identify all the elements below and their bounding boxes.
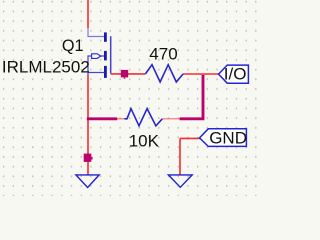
wire 10K resistor left lead: [117, 118, 125, 120]
junction square on source wire: [84, 154, 92, 162]
Q1 body arrow head: [92, 54, 101, 59]
wire GND port down to ground symbol: [179, 138, 181, 175]
wire source net vertical down to ground: [87, 75, 89, 175]
resistor 10K: [125, 109, 163, 126]
Q1 channel bar drain: [104, 32, 107, 41]
svg-text:IRLML2502: IRLML2502: [2, 57, 90, 76]
Q1 body pin with arrow: [88, 56, 104, 73]
svg-text:Q1: Q1: [62, 37, 84, 55]
svg-text:10K: 10K: [129, 131, 160, 150]
resistor 470: [145, 65, 183, 82]
port GND: [200, 128, 247, 147]
Q1 source pin: [88, 73, 104, 76]
ground symbol right: [168, 175, 192, 187]
thick wire 10K to output vertical+horizontal: [180, 75, 205, 119]
wire gate net horizontal to 470 resistor: [111, 73, 146, 75]
junction square on gate wire: [121, 70, 128, 78]
svg-text:GND: GND: [209, 128, 247, 147]
wire GND port horizontal: [180, 137, 200, 139]
wire 10K resistor right lead: [162, 118, 180, 120]
Q1 gate plate line: [110, 36, 112, 73]
Q1 drain pin: [88, 28, 104, 36]
svg-text:470: 470: [149, 44, 177, 63]
transistor Q1 IRLML2502 MOSFET: [88, 28, 111, 78]
wire drain net vertical from top: [87, 0, 89, 28]
thick wire source bus left segment: [87, 117, 117, 120]
Q1 channel bar source: [104, 66, 107, 78]
port I/O: [219, 65, 249, 84]
Q1 channel bar middle: [104, 51, 107, 61]
wire 470 resistor to I/O port: [183, 73, 218, 75]
svg-text:I/O: I/O: [224, 65, 247, 84]
ground symbol left: [76, 175, 99, 188]
